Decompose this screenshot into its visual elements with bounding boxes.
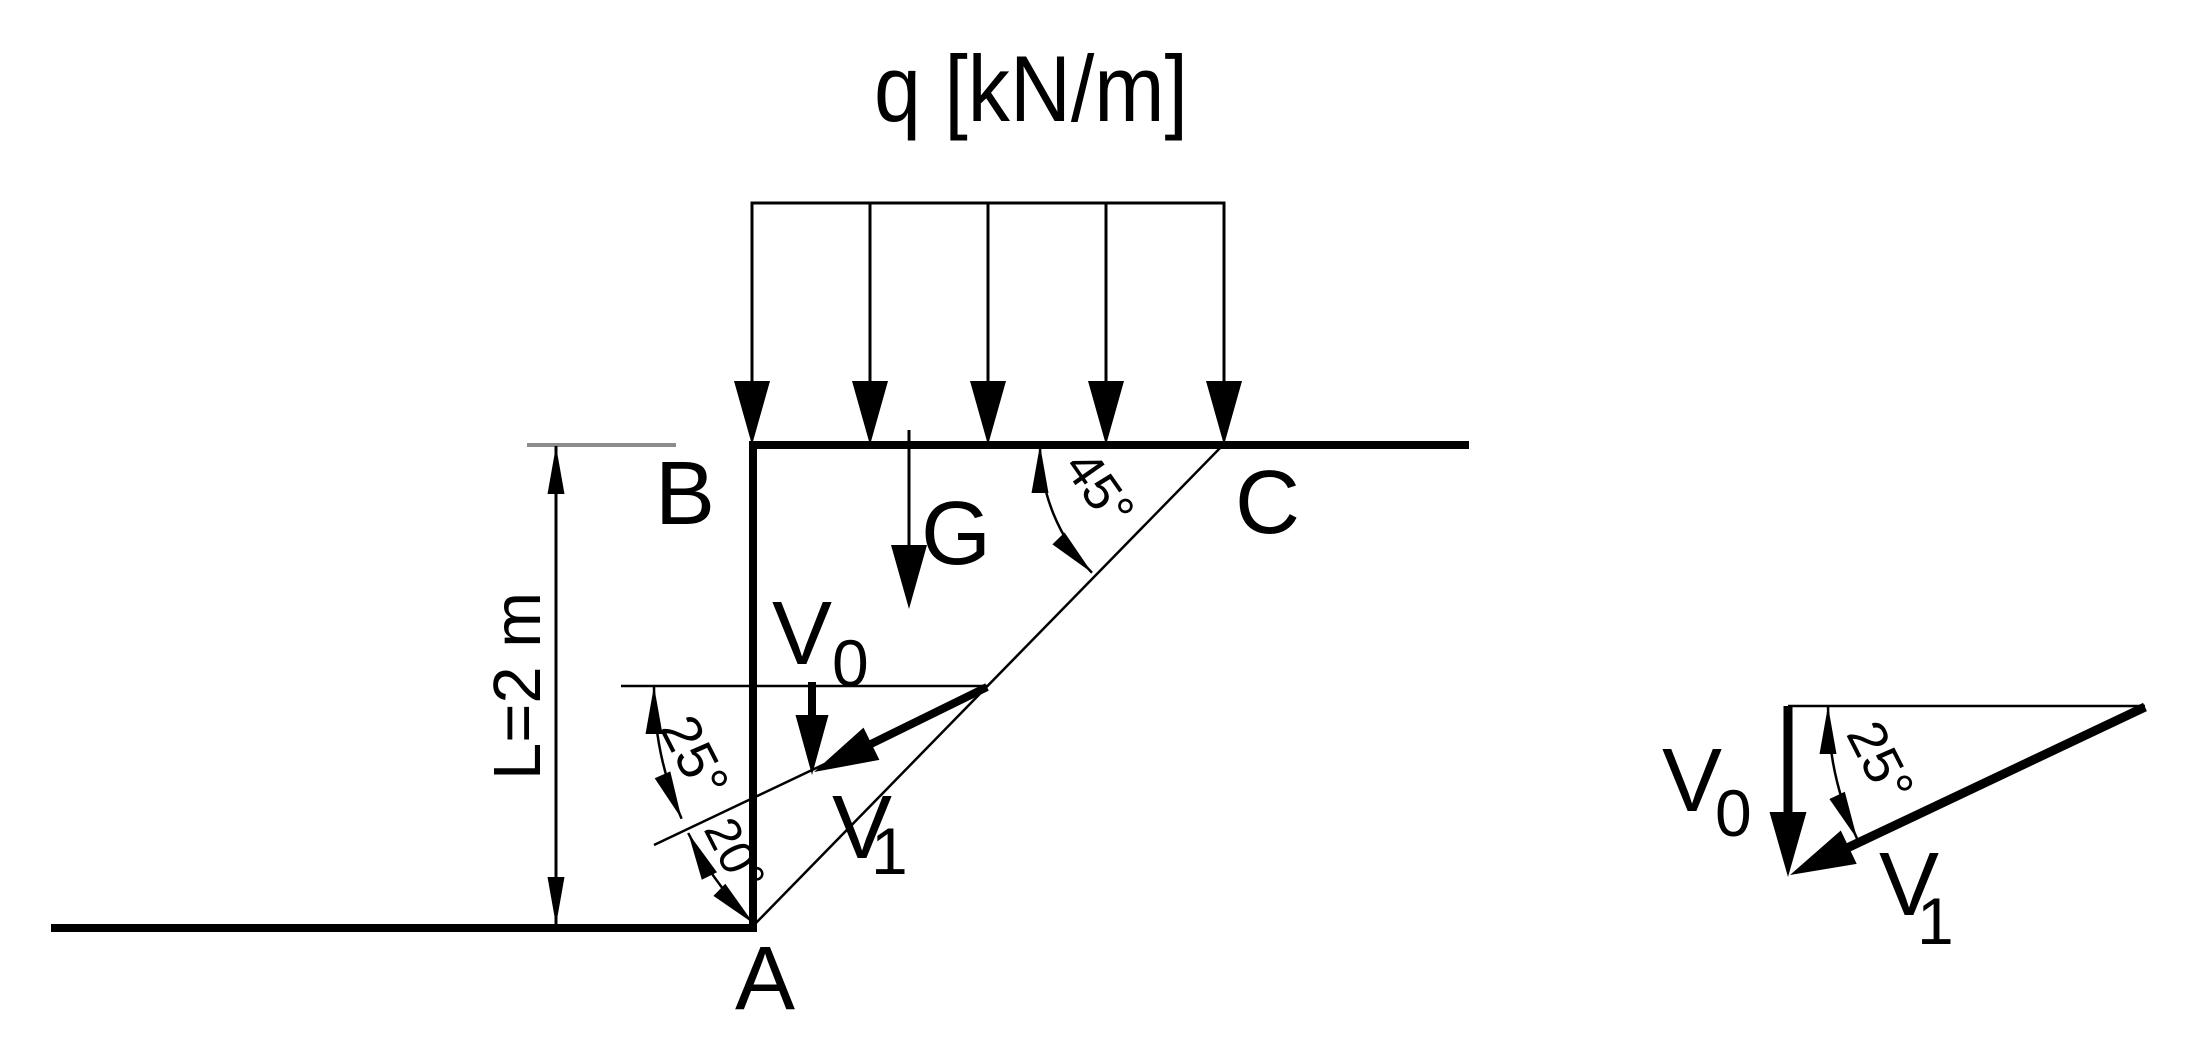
svg-text:V: V [772, 584, 832, 684]
dimension arrow bottom [548, 877, 565, 925]
25 deg angle arc [654, 686, 682, 819]
horizontal construction line through V0/V1 origin [621, 685, 987, 688]
distributed load header line q [751, 202, 1226, 205]
20 deg arc arrow (top) [688, 833, 717, 880]
V1 direction line (25 deg) [654, 687, 987, 845]
slip line A-C (45 deg) [753, 445, 1223, 926]
load arrow 1 head [734, 381, 770, 445]
45 deg arc arrow (bottom) [1052, 533, 1092, 573]
svg-text:1: 1 [1917, 884, 1954, 958]
dimension arrow top [548, 446, 565, 494]
triangle V0 stem [1784, 706, 1793, 818]
triangle V1 stem [1840, 707, 2145, 852]
force V1 head [814, 728, 879, 772]
svg-text:G: G [921, 484, 991, 584]
triangle V0 head [1770, 812, 1807, 877]
svg-text:C: C [1235, 453, 1300, 553]
45 deg angle arc [1040, 445, 1092, 573]
svg-text:L=2 m: L=2 m [480, 592, 555, 780]
wall line A-B (vertical) [749, 441, 757, 930]
triangle 25 deg arc [1828, 706, 1857, 839]
force V0 stem [808, 682, 816, 720]
triangle V1 head [1790, 831, 1857, 876]
force G head [891, 545, 927, 609]
dimension line L [555, 446, 558, 925]
triangle 25 arc arrow (bottom) [1829, 792, 1857, 839]
25 deg arc arrow (top) [646, 686, 663, 734]
lower ground line (left of A) [51, 924, 757, 932]
force V0 head [796, 715, 829, 775]
svg-text:B: B [655, 444, 715, 544]
triangle 25 arc arrow (top) [1820, 706, 1837, 754]
load arrow 4 head [1088, 381, 1124, 445]
load arrow 3 head [970, 381, 1006, 445]
load arrow 2 head [852, 381, 888, 445]
svg-text:q [kN/m]: q [kN/m] [874, 36, 1188, 141]
svg-text:0: 0 [1715, 776, 1752, 850]
triangle top line [1788, 705, 2145, 708]
20 deg angle arc [688, 833, 753, 924]
svg-text:0: 0 [832, 626, 869, 700]
load arrow 3 stem [987, 203, 990, 390]
force G stem [908, 430, 911, 550]
load arrow 5 stem [1223, 203, 1226, 390]
load arrow 1 stem [751, 203, 754, 390]
svg-text:1: 1 [871, 814, 908, 888]
svg-text:V: V [1662, 731, 1722, 831]
20 deg arc arrow (bottom) [713, 884, 753, 924]
ground surface line B-C (top) [749, 441, 1469, 449]
25 deg arc arrow (bottom) [655, 771, 682, 818]
load arrow 4 stem [1105, 203, 1108, 390]
45 deg arc arrow (top) [1032, 445, 1049, 493]
svg-text:A: A [735, 929, 795, 1029]
dimension extension line (gray) [527, 443, 676, 447]
force V1 stem [863, 687, 987, 748]
load arrow 5 head [1206, 381, 1242, 445]
load arrow 2 stem [869, 203, 872, 390]
